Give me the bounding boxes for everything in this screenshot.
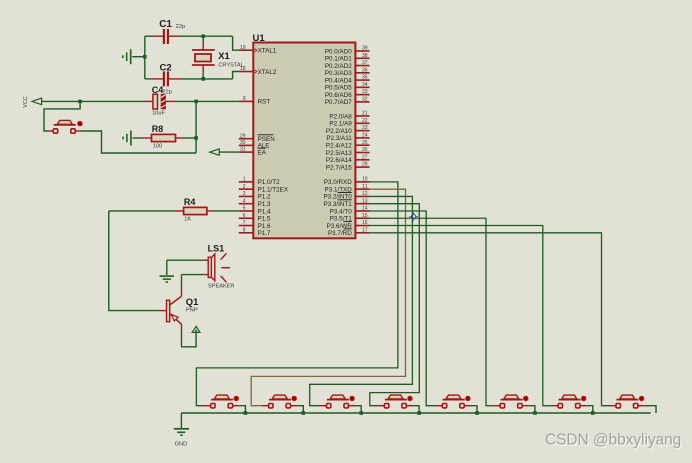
IC U1 (8051 microcontroller) body: [253, 43, 355, 239]
svg-text:CRYSTAL: CRYSTAL: [218, 62, 243, 68]
svg-text:1K: 1K: [184, 217, 191, 223]
wire S3 to ground rail: [355, 406, 361, 413]
svg-text:19: 19: [240, 45, 246, 51]
svg-text:P2.7/A15: P2.7/A15: [326, 164, 352, 171]
svg-text:36: 36: [362, 67, 368, 73]
C2 right lead: [169, 78, 182, 80]
svg-text:P0.1/AD1: P0.1/AD1: [325, 56, 352, 63]
svg-text:P2.4/A12: P2.4/A12: [326, 143, 352, 150]
wire R4 to P1.4 pin: [214, 210, 239, 212]
wire RST node vertical: [195, 101, 197, 153]
wire VCC to reset button: [44, 101, 80, 131]
ground GND (rail): [174, 429, 189, 435]
junction S6 rail: [533, 411, 537, 415]
S8 right lead: [638, 405, 644, 407]
svg-text:C4: C4: [152, 85, 164, 95]
S2 left lead: [262, 405, 269, 407]
svg-text:11: 11: [362, 184, 367, 190]
svg-text:30: 30: [240, 140, 246, 146]
R8 left lead: [144, 137, 151, 139]
svg-text:3: 3: [243, 191, 246, 197]
blue cursor marker: [409, 212, 417, 220]
svg-text:23: 23: [362, 125, 368, 131]
svg-text:SPEAKER: SPEAKER: [208, 284, 234, 290]
svg-text:31: 31: [240, 147, 246, 153]
svg-text:P1.1/T2EX: P1.1/T2EX: [258, 186, 289, 193]
capacitor C1: [163, 29, 169, 44]
S1 right lead: [233, 405, 239, 407]
svg-text:PNP: PNP: [186, 308, 198, 314]
S8 left lead: [609, 405, 616, 407]
svg-text:R8: R8: [152, 124, 164, 134]
wire VCC to C4: [42, 100, 145, 102]
svg-text:26: 26: [362, 147, 368, 153]
svg-text:34: 34: [362, 82, 368, 88]
svg-text:P3.3/INT1: P3.3/INT1: [323, 201, 352, 208]
S1 left lead: [204, 405, 211, 407]
svg-text:21: 21: [362, 111, 368, 117]
svg-text:P2.2/A10: P2.2/A10: [326, 128, 352, 135]
svg-text:P0.4/AD4: P0.4/AD4: [325, 77, 352, 84]
X1 top lead: [202, 42, 204, 50]
ground (R8): [123, 131, 131, 146]
wire C1 to XTAL1 corner: [179, 35, 233, 37]
S2 right lead: [291, 405, 297, 407]
push button S5: [442, 395, 470, 408]
wire P3.4 to button 5: [370, 211, 436, 406]
S6 left lead: [493, 405, 500, 407]
wire crystal bottom stub: [202, 73, 204, 79]
wire C2 to XTAL2 corner: [182, 78, 233, 80]
wire P3.2 to button 3: [310, 196, 413, 405]
power terminal at EA pin: [210, 149, 219, 155]
svg-text:13: 13: [362, 198, 368, 204]
S5 left lead: [435, 405, 442, 407]
svg-text:EA: EA: [258, 149, 267, 156]
wire LS1 bottom to Q1 collector: [182, 274, 204, 276]
svg-text:P3.0/RXD: P3.0/RXD: [324, 179, 352, 186]
wire ground stem speaker: [166, 260, 168, 275]
svg-text:P1.7: P1.7: [258, 230, 271, 237]
wire C4 to RST: [175, 100, 239, 102]
U1 left pin names: [258, 48, 289, 238]
capacitor C4 (electrolytic 10uF): [153, 94, 166, 109]
power terminal VCC: [32, 98, 42, 105]
svg-text:P2.1/A9: P2.1/A9: [329, 121, 352, 128]
svg-text:2: 2: [243, 184, 246, 190]
reset button left lead: [48, 130, 53, 132]
wire S5 to ground rail: [471, 406, 477, 413]
junction S7 rail: [591, 411, 595, 415]
svg-text:P2.0/A8: P2.0/A8: [329, 113, 352, 120]
svg-text:P0.3/AD3: P0.3/AD3: [325, 70, 352, 77]
svg-text:VCC: VCC: [23, 96, 29, 107]
svg-text:P1.0/T2: P1.0/T2: [258, 179, 281, 186]
U1 right pin stubs: [355, 51, 369, 233]
svg-text:R4: R4: [184, 197, 196, 207]
U1 right pin numbers: [362, 46, 368, 234]
LS1 bottom lead: [204, 274, 209, 276]
R8 right lead: [176, 137, 184, 139]
wire P3.6 to button 7: [370, 226, 551, 406]
svg-text:28: 28: [362, 162, 368, 168]
resistor R8: [152, 134, 176, 141]
svg-text:16: 16: [362, 220, 368, 226]
svg-text:38: 38: [362, 53, 368, 59]
push button (reset): [53, 120, 82, 133]
svg-text:27: 27: [362, 154, 368, 160]
wire left rail vertical: [144, 36, 146, 79]
svg-text:4: 4: [243, 198, 246, 204]
svg-text:1: 1: [243, 177, 246, 183]
crystal X1: [192, 50, 215, 65]
wire crystal top stub: [202, 36, 204, 42]
wire GND stem: [180, 413, 182, 428]
LS1 top lead: [204, 259, 209, 261]
wire collector vertical: [181, 275, 183, 289]
wire S1 to ground rail: [239, 406, 245, 413]
svg-text:9: 9: [243, 96, 246, 102]
svg-text:6: 6: [243, 213, 246, 219]
svg-text:10uF: 10uF: [152, 111, 165, 117]
C1 left lead: [152, 35, 163, 37]
svg-text:22: 22: [362, 118, 368, 124]
svg-text:35: 35: [362, 75, 368, 81]
S5 right lead: [465, 405, 471, 407]
S3 left lead: [320, 405, 327, 407]
svg-text:U1: U1: [253, 33, 266, 44]
svg-text:7: 7: [243, 220, 246, 226]
svg-text:C1: C1: [159, 19, 172, 30]
CSDN watermark: [545, 432, 683, 450]
svg-text:P2.5/A13: P2.5/A13: [326, 150, 352, 157]
svg-text:P3.7/RD: P3.7/RD: [328, 230, 352, 237]
push button S7: [558, 395, 586, 408]
svg-text:P1.6: P1.6: [258, 223, 271, 230]
XTAL1 clock chevron: [255, 49, 257, 52]
svg-text:P0.7/AD7: P0.7/AD7: [325, 99, 352, 106]
svg-text:Q1: Q1: [186, 296, 199, 307]
svg-text:P2.3/A11: P2.3/A11: [326, 135, 352, 142]
wire S7 to ground rail: [587, 406, 593, 413]
svg-text:P0.5/AD5: P0.5/AD5: [325, 85, 352, 92]
svg-text:15: 15: [362, 213, 368, 219]
svg-text:37: 37: [362, 60, 368, 66]
wire up to XTAL2 pin: [233, 72, 239, 79]
svg-text:39: 39: [362, 46, 368, 52]
C2 left lead: [152, 78, 163, 80]
wire S4 to ground rail: [413, 406, 419, 413]
push button S4: [384, 395, 412, 408]
wire down to XTAL1 pin: [233, 36, 239, 50]
S3 right lead: [349, 405, 355, 407]
U1 left pin stubs: [239, 50, 254, 233]
svg-text:12: 12: [362, 191, 368, 197]
svg-text:22p: 22p: [176, 24, 186, 30]
wire C2 left to rail: [145, 78, 152, 80]
C1 right lead: [169, 35, 179, 37]
push button S8: [616, 395, 644, 408]
wire ground to R8: [132, 137, 144, 139]
svg-text:100: 100: [153, 144, 162, 150]
power terminal (emitter): [192, 326, 200, 332]
wire S8 to rail end: [645, 406, 656, 413]
svg-text:24: 24: [362, 133, 368, 139]
wire P3.3 to button 4: [370, 204, 420, 406]
transistor Q1 (PNP): [167, 296, 182, 324]
svg-text:P1.3: P1.3: [258, 201, 271, 208]
Q1 base lead: [160, 310, 167, 312]
junction ground stub on rail: [143, 55, 147, 59]
svg-text:P2.6/A14: P2.6/A14: [326, 157, 352, 164]
wire P3.0 to button 1: [196, 182, 398, 406]
wire R4 to Q1 base: [109, 211, 160, 311]
junction RST node: [194, 100, 198, 104]
svg-text:C2: C2: [160, 63, 172, 74]
svg-text:XTAL2: XTAL2: [258, 69, 277, 76]
svg-text:GND: GND: [175, 442, 187, 448]
svg-text:P0.6/AD6: P0.6/AD6: [325, 92, 352, 99]
wire P3.7 to button 8: [370, 233, 609, 406]
svg-text:P1.2: P1.2: [258, 194, 271, 201]
R4 left lead: [176, 210, 184, 212]
S4 left lead: [377, 405, 384, 407]
Q1 emitter lead: [181, 324, 183, 328]
wire power to EA pin: [219, 151, 239, 153]
svg-text:LS1: LS1: [208, 243, 225, 253]
XTAL2 clock chevron: [255, 70, 257, 73]
wire S6 to ground rail: [529, 406, 535, 413]
junction R8 RST node: [194, 136, 198, 140]
svg-text:RST: RST: [258, 99, 271, 106]
svg-text:33: 33: [362, 89, 368, 95]
junction crystal top node: [201, 34, 205, 38]
C4 left lead: [145, 100, 153, 102]
resistor R4: [184, 207, 207, 214]
svg-text:P1.4: P1.4: [258, 208, 271, 215]
svg-text:29: 29: [240, 133, 246, 139]
svg-text:17: 17: [362, 227, 368, 233]
svg-text:8: 8: [243, 227, 246, 233]
wire P3.5 to button 6: [370, 218, 494, 405]
wire LS1 top to ground: [167, 259, 204, 261]
wire rail to ground: [132, 56, 145, 58]
svg-text:X1: X1: [218, 50, 229, 61]
C4 right lead: [166, 100, 175, 102]
S4 right lead: [407, 405, 413, 407]
capacitor C2: [163, 71, 169, 86]
push button S1: [211, 395, 239, 408]
wire base rail to R4: [109, 210, 176, 212]
svg-text:P0.0/AD0: P0.0/AD0: [325, 48, 352, 55]
wire S2 to ground rail: [297, 406, 303, 413]
ground (crystal rail): [123, 49, 131, 64]
X1 bottom lead: [202, 65, 204, 73]
wire emitter to power arrow: [182, 328, 197, 347]
wire R8 to RST node: [184, 137, 197, 139]
ground (speaker): [160, 276, 174, 282]
S7 right lead: [581, 405, 587, 407]
svg-text:P3.4/T0: P3.4/T0: [330, 208, 353, 215]
svg-text:XTAL1: XTAL1: [258, 48, 277, 55]
R4 right lead: [207, 210, 214, 212]
wire ground rail: [181, 412, 650, 414]
svg-text:CSDN @bbxyliyang: CSDN @bbxyliyang: [545, 432, 681, 449]
U1 right pin names: [323, 48, 352, 237]
junction VCC button branch: [78, 100, 82, 104]
wire reset button to RST node: [82, 131, 197, 153]
S7 left lead: [551, 405, 558, 407]
wire P3.1 to button 2: [251, 189, 405, 406]
Q1 collector lead: [181, 289, 183, 297]
svg-text:25: 25: [362, 140, 368, 146]
junction S4 rail: [417, 411, 421, 415]
svg-text:P1.5: P1.5: [258, 216, 271, 223]
reset button right lead: [76, 130, 82, 132]
push button S2: [269, 395, 297, 408]
push button S3: [327, 395, 355, 408]
svg-text:14: 14: [362, 206, 368, 212]
S6 right lead: [523, 405, 529, 407]
junction crystal bottom node: [201, 77, 205, 81]
svg-text:10: 10: [362, 177, 368, 183]
wire C1 left to rail: [145, 35, 153, 37]
junction S2 rail: [302, 411, 306, 415]
junction S1 rail: [244, 411, 248, 415]
svg-text:P0.2/AD2: P0.2/AD2: [325, 63, 352, 70]
speaker LS1: [208, 253, 230, 282]
svg-text:5: 5: [243, 206, 246, 212]
junction S3 rail: [359, 411, 363, 415]
svg-text:32: 32: [362, 96, 368, 102]
U1 left pin numbers: [240, 45, 246, 234]
push button S6: [500, 395, 528, 408]
junction S5 rail: [475, 411, 479, 415]
